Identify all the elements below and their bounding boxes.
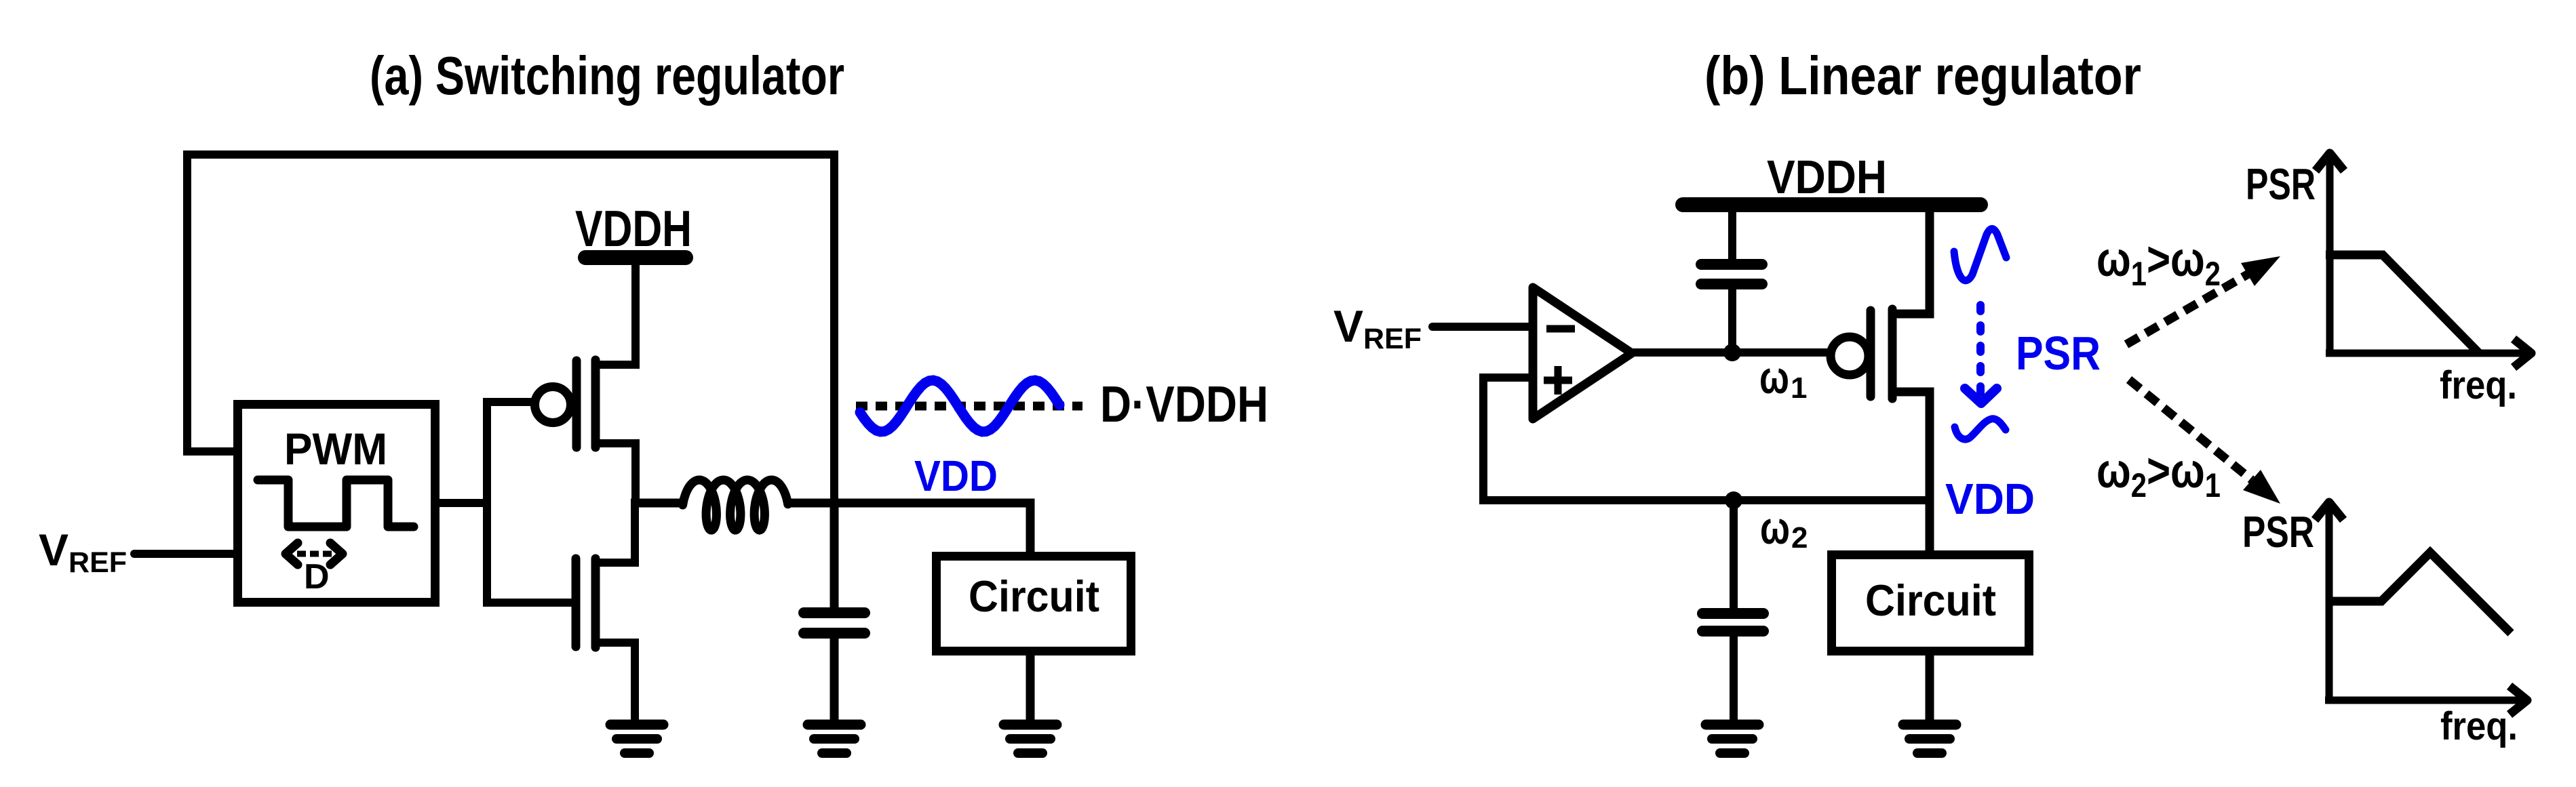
transistor M1 PMOS bubble [535,387,571,423]
svg-text:VDD: VDD [914,451,998,500]
capacitor C3 top wire [1730,505,1738,609]
Circuit box (b) [1832,555,2029,651]
ground under NMOS [610,720,663,730]
transistor M2 NMOS source lead [597,643,635,720]
capacitor C3 plates [1702,608,1763,619]
wire inverter output to inductor [631,499,685,508]
D duty arrow (double-headed dashed) [286,543,298,565]
VDDH supply bar (a) [585,250,686,265]
capacitor C1 top wire [830,503,839,609]
blue dashed PSR arrow [1976,305,1985,393]
svg-text:(b) Linear regulator: (b) Linear regulator [1704,45,2141,106]
svg-text:ω1>ω2: ω1>ω2 [2096,233,2221,293]
dashed average level line [856,402,1082,411]
svg-text:ω: ω [1759,352,1789,403]
svg-text:PSR: PSR [2242,507,2314,557]
PWM duty-cycle waveform [258,480,414,527]
PWM box U1 [238,405,435,603]
wire NMOS gate stub [483,599,572,607]
ground under Circuit (b) [1903,720,1956,730]
transistor M3 PMOS bubble [1831,337,1869,375]
capacitor C2 (VDDH to gate) top wire [1728,210,1736,260]
wire op-amp output to PMOS gate [1628,348,1830,357]
ground under Circuit (a) [1004,720,1057,730]
bottom graph y-axis [2326,504,2333,704]
svg-text:D·VDDH: D·VDDH [1100,376,1268,432]
top graph y-axis [2326,155,2334,355]
blue ripple sine wave [860,380,1059,432]
transistor M1 PMOS source lead to VDDH [597,265,636,365]
node w1 dot [1723,344,1741,361]
svg-text:Circuit: Circuit [969,571,1099,621]
op-amp minus [1546,325,1575,333]
transistor M1 PMOS gate bar [572,361,581,447]
svg-text:PSR: PSR [2016,327,2101,380]
Circuit box (a) [937,557,1131,651]
transistor M2 NMOS channel bar [591,559,600,647]
capacitor C1 bottom wire [830,637,839,720]
svg-text:2: 2 [1791,521,1808,554]
bottom graph x-axis [2325,697,2526,704]
blue ripple squiggle bottom [1955,419,2006,439]
capacitor C1 plates [804,607,865,618]
svg-text:D: D [304,557,330,597]
inductor L1 [683,480,788,530]
wire feedback (b): plus input down and across to VDD node [1483,378,1930,500]
transistor M3 PMOS gate bar [1867,310,1875,397]
ground under C3 [1706,720,1759,730]
svg-text:VDDH: VDDH [1767,150,1887,203]
svg-text:freq.: freq. [2440,704,2518,748]
capacitor C2 plates [1701,259,1762,270]
top graph PSR curve [2326,255,2479,353]
svg-text:VDDH: VDDH [575,200,692,257]
transistor M3 PMOS channel bar [1888,309,1897,399]
wire PMOS gate stub [483,398,533,406]
wire feedback loop top [187,155,834,503]
wire VREF to op-amp (b) [1432,323,1533,331]
wire PWM output to inverter gates [440,398,487,607]
wire inductor to VDD node and Circuit (a) [787,503,1030,556]
transistor M1 PMOS channel bar [591,360,600,447]
transistor M2 NMOS drain lead [597,499,635,563]
transistor M2 NMOS gate bar [572,559,581,647]
capacitor C3 bottom wire [1730,637,1738,720]
wire VREF to PWM [134,550,233,558]
wire Circuit (b) to ground [1926,651,1934,720]
svg-text:VDD: VDD [1945,475,2035,523]
ground under C1 [808,720,861,730]
dashed arrow to bottom graph [2129,380,2252,480]
transistor M1 PMOS drain lead [597,443,636,507]
op-amp U2 triangle [1533,287,1632,419]
svg-text:Circuit: Circuit [1865,576,1996,625]
transistor M3 PMOS source lead to VDDH [1894,212,1930,314]
op-amp plus [1544,366,1572,395]
wire Circuit (a) to ground [1026,651,1035,720]
node w2 dot [1725,491,1742,509]
capacitor C2 bottom wire [1728,289,1736,352]
svg-text:1: 1 [1791,371,1807,405]
transistor M3 PMOS drain lead to Circuit [1894,392,1930,554]
bottom graph PSR curve [2326,552,2511,633]
dashed arrow to top graph [2126,271,2253,344]
blue ripple squiggle top [1954,229,2006,281]
svg-text:ω: ω [1760,502,1790,554]
top graph x-axis [2326,350,2530,357]
svg-text:freq.: freq. [2440,363,2517,407]
svg-text:(a) Switching regulator: (a) Switching regulator [370,45,844,106]
VDDH supply bar (b) [1683,197,1980,212]
svg-text:ω2>ω1: ω2>ω1 [2096,444,2221,504]
svg-text:PSR: PSR [2246,159,2316,209]
svg-text:PWM: PWM [284,424,387,474]
